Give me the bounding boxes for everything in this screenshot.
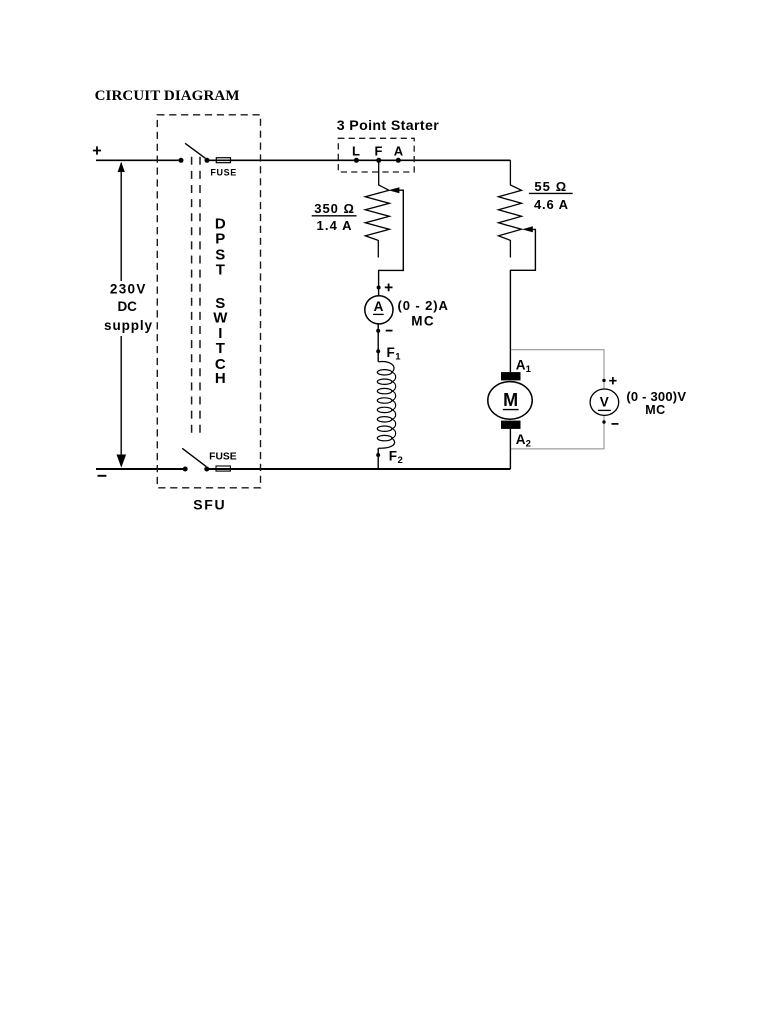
- svg-text:F: F: [375, 143, 383, 158]
- svg-text:FUSE: FUSE: [209, 452, 237, 463]
- svg-text:MC: MC: [411, 313, 435, 328]
- svg-text:A: A: [394, 143, 404, 158]
- svg-text:T: T: [216, 261, 225, 278]
- svg-text:F: F: [387, 345, 395, 360]
- svg-text:MC: MC: [645, 403, 665, 417]
- svg-text:2: 2: [526, 439, 531, 450]
- svg-text:230V: 230V: [110, 282, 147, 297]
- svg-text:55 Ω: 55 Ω: [534, 179, 567, 194]
- svg-text:DC: DC: [117, 299, 137, 314]
- svg-text:1.4 A: 1.4 A: [317, 218, 353, 233]
- svg-text:1: 1: [526, 364, 532, 375]
- svg-text:A: A: [516, 357, 526, 372]
- svg-text:A: A: [516, 432, 526, 447]
- svg-text:M: M: [503, 390, 518, 410]
- svg-text:(0 - 2)A: (0 - 2)A: [398, 298, 449, 313]
- svg-text:CIRCUIT DIAGRAM: CIRCUIT DIAGRAM: [95, 88, 240, 104]
- svg-text:F: F: [389, 448, 397, 463]
- svg-text:P: P: [215, 231, 225, 248]
- svg-text:350 Ω: 350 Ω: [314, 201, 355, 216]
- svg-text:3 Point Starter: 3 Point Starter: [337, 118, 439, 134]
- svg-text:FUSE: FUSE: [210, 168, 236, 178]
- svg-text:A: A: [374, 299, 384, 314]
- svg-text:V: V: [600, 395, 609, 410]
- svg-text:L: L: [352, 143, 360, 158]
- svg-text:supply: supply: [104, 318, 153, 333]
- svg-text:2: 2: [398, 455, 403, 466]
- svg-text:T: T: [216, 340, 225, 357]
- svg-text:(0 - 300)V: (0 - 300)V: [626, 389, 686, 404]
- svg-text:1: 1: [395, 352, 401, 363]
- svg-text:4.6 A: 4.6 A: [534, 197, 569, 212]
- svg-text:H: H: [215, 370, 226, 387]
- svg-text:SFU: SFU: [193, 496, 226, 512]
